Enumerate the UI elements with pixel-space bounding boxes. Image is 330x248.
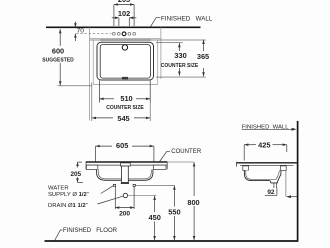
dimension 510 extension lines — [98, 81, 100, 103]
sink rim flange right (elevation) — [153, 165, 166, 169]
svg-text:COUNTER SIZE: COUNTER SIZE — [106, 105, 144, 111]
drain slot on rim bottom (plan) — [122, 77, 128, 79]
counter slab (elevation) — [86, 161, 168, 163]
counter front edge (plan) — [93, 84, 158, 86]
dimension 92 line under text — [265, 194, 277, 196]
svg-text:SUPPLY Ø 1/2": SUPPLY Ø 1/2" — [48, 192, 89, 198]
finished floor leader — [55, 230, 63, 241]
svg-text:425: 425 — [258, 140, 270, 149]
svg-text:SUGGESTED: SUGGESTED — [42, 58, 74, 64]
extension lines for 330 dim (plan right) — [156, 42, 183, 44]
svg-text:205: 205 — [118, 0, 130, 4]
water supply point left — [113, 184, 115, 186]
dimension 600 suggested line — [59, 29, 61, 46]
sink bowl outer (elevation) — [97, 170, 153, 181]
svg-text:DRAIN Ø1 1/2": DRAIN Ø1 1/2" — [48, 203, 88, 209]
svg-text:200: 200 — [119, 211, 130, 218]
sink bowl inner line (side) — [246, 170, 280, 179]
counter leader (elevation) — [160, 151, 170, 161]
finished wall line (side) — [297, 121, 299, 240]
finished floor line — [45, 240, 299, 242]
svg-text:102: 102 — [118, 9, 130, 18]
sink bowl inner line (elevation) — [98, 170, 151, 179]
dimension 550 line — [173, 186, 175, 207]
dimension 92 extension line from flange back — [285, 171, 287, 197]
dimension 425 extension ticks — [243, 145, 245, 161]
counter back edge darker middle segment — [100, 39, 151, 41]
dimension 205 extension lines — [113, 5, 115, 27]
faucet holes row — [112, 32, 115, 35]
svg-text:545: 545 — [117, 114, 129, 123]
svg-text:365: 365 — [197, 52, 209, 61]
dimension 605 extension ticks — [95, 146, 97, 162]
dimension 330 line — [178, 43, 180, 51]
svg-text:COUNTER: COUNTER — [171, 149, 202, 155]
counter top reference line to 800 dim — [167, 161, 194, 163]
drain height reference line (450) — [128, 195, 157, 197]
faucet hole centerline (dashed) — [76, 33, 112, 35]
svg-text:330: 330 — [174, 51, 186, 60]
counter slab (side) — [237, 162, 298, 164]
dimension 200 line — [115, 207, 134, 209]
counter outline (plan) right side — [157, 39, 159, 84]
sink bowl outer (side) — [244, 170, 281, 183]
counter outline (plan) left side — [89, 27, 91, 120]
drain column (elevation) — [121, 163, 131, 166]
dimension 450 line — [154, 196, 156, 212]
dimension 200 extension lines — [114, 187, 116, 209]
svg-text:550: 550 — [168, 208, 180, 217]
dimension 510 line — [99, 98, 114, 100]
dimension 205 line — [114, 4, 134, 6]
dimension 545 line — [92, 117, 113, 119]
dimension 102 outside arrows — [112, 17, 119, 19]
dimension 92 arrow from wall — [286, 196, 297, 198]
dimension 425 line — [244, 144, 256, 146]
finished wall arrow (side) — [242, 128, 295, 130]
svg-text:600: 600 — [52, 46, 64, 55]
sink rim flange left (elevation) — [86, 165, 97, 169]
dimension 800 line — [193, 162, 195, 196]
drain outlet circle — [123, 193, 127, 197]
drain column cap (elevation) — [121, 182, 129, 184]
dimension 545 extension line right — [149, 103, 151, 122]
svg-text:605: 605 — [116, 141, 128, 150]
counter front tick (side) — [236, 162, 238, 167]
dimension 365 line — [203, 40, 205, 51]
svg-text:FINISHED FLOOR: FINISHED FLOOR — [63, 228, 118, 234]
dimension 205 line (elevation) — [77, 162, 79, 167]
svg-text:800: 800 — [187, 198, 199, 207]
drain leader — [98, 196, 123, 204]
svg-text:FINISHED WALL: FINISHED WALL — [161, 15, 213, 22]
dimension 92 extension line from drain — [276, 188, 278, 195]
sink rim inner / cutout line (plan) — [100, 45, 150, 79]
svg-text:205: 205 — [70, 171, 81, 178]
dimension 545 extension line left — [91, 83, 93, 122]
svg-text:COUNTER SIZE: COUNTER SIZE — [161, 63, 199, 69]
svg-text:510: 510 — [120, 94, 132, 103]
dimension 600 bottom reference line — [58, 85, 92, 87]
counter back edge (plan) with extension to 365 dim — [90, 39, 206, 41]
dimension 70 line — [74, 22, 76, 28]
svg-text:450: 450 — [149, 213, 161, 222]
sink flange back (side) — [281, 166, 287, 171]
finished wall leader (plan) — [150, 18, 160, 28]
drain stub (side) — [273, 183, 275, 188]
water supply point right — [133, 184, 135, 186]
dimension 605 line — [96, 145, 113, 147]
finished wall line (plan) — [46, 26, 201, 28]
counter back edge (plan) upper line — [90, 38, 161, 40]
sink rim outer (plan) — [97, 42, 154, 80]
faucet hole on sink deck (plan) — [122, 45, 127, 50]
water supply leader — [101, 186, 114, 194]
sink flange front (side) — [243, 166, 249, 171]
svg-text:WATER: WATER — [48, 185, 69, 191]
supply height reference line (550) — [135, 184, 174, 186]
dimension 102 extension lines — [118, 18, 120, 26]
